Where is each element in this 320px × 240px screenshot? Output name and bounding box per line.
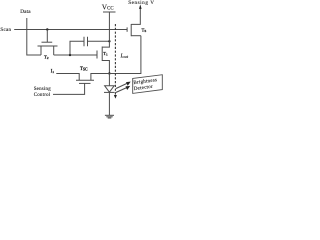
svg-text:Iout: Iout [119,54,128,60]
transistor T2 [38,30,58,56]
dashed Iout current arrow [114,24,116,96]
node scan/T2-gate junction [46,28,48,30]
label Scan [0,28,11,33]
label Tsc [80,67,88,72]
transistor T1 [97,41,109,73]
wire data line [27,18,41,55]
wire scan line [14,29,127,31]
transistor Ts [127,7,141,37]
svg-text:Control: Control [34,93,51,98]
label Data [20,9,31,15]
svg-text:I1: I1 [51,69,55,74]
arrowhead Iout [114,95,117,99]
label T1 [103,51,108,57]
OLED diode [104,74,115,116]
node capacitor/Vcc-rail junction [108,40,110,42]
svg-text:Sensing V: Sensing V [128,0,154,6]
label Vcc [102,2,114,11]
wire node line to T1 gate [54,54,97,56]
light emission arrow 2 [116,86,131,93]
wire anode line to Ts source [109,36,140,74]
label Ts [142,27,147,33]
svg-text:TSC: TSC [80,67,88,72]
capacitor C1 [84,37,109,46]
arrowhead Sensing V [139,4,142,8]
svg-text:T2: T2 [44,55,49,61]
svg-text:TS: TS [142,27,147,33]
brightness detector box [133,75,163,94]
label Sensing Control [34,87,52,98]
power Vcc [103,12,116,41]
node A junction dot [69,54,71,56]
light emission arrow 1 [116,82,131,89]
wire riser node A to capacitor [70,41,84,55]
node OLED anode junction [108,72,110,74]
label I1 [51,69,55,74]
label Sensing V [128,0,154,6]
svg-text:Sensing: Sensing [34,87,52,92]
svg-text:Scan: Scan [0,28,11,33]
label Brightness Detector [133,78,158,92]
svg-text:T1: T1 [103,51,108,57]
transistor Tsc [53,74,109,95]
ground [105,115,114,118]
svg-text:Data: Data [20,9,31,15]
label T2 [44,55,49,61]
label Iout [119,54,128,60]
